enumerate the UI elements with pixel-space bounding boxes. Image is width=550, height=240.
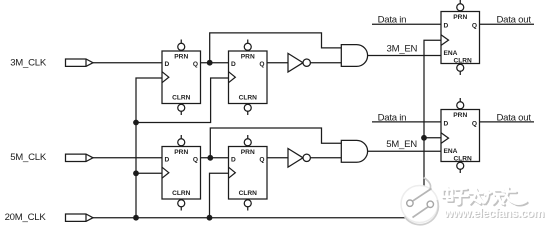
svg-text:3M_EN: 3M_EN bbox=[387, 44, 418, 55]
svg-text:D: D bbox=[165, 156, 170, 163]
junction bus tap 4 bbox=[207, 215, 213, 221]
wire 3M_EN net bbox=[368, 55, 441, 57]
svg-text:PRN: PRN bbox=[453, 112, 467, 119]
AND gate A1 bbox=[341, 45, 367, 67]
svg-text:Q: Q bbox=[472, 121, 477, 128]
input pin connector 20M_CLK pin bbox=[66, 214, 94, 221]
inverter N2 bbox=[288, 149, 310, 168]
svg-text:Q: Q bbox=[259, 156, 264, 163]
svg-text:www.elecfans.com: www.elecfans.com bbox=[443, 206, 544, 220]
wire clock branch to U3.CLK bbox=[136, 172, 162, 174]
svg-text:D: D bbox=[165, 61, 170, 68]
wire U1.Q to U2.D bbox=[201, 62, 229, 64]
D flip-flop U5 bbox=[441, 0, 480, 75]
input pin connector 3M_CLK pin bbox=[66, 59, 94, 66]
inverter N1 bbox=[288, 53, 310, 72]
wire U6.Q to Data out bbox=[480, 121, 535, 123]
svg-text:CLRN: CLRN bbox=[454, 155, 473, 162]
junction bus tap 1 bbox=[133, 215, 139, 221]
svg-text:D: D bbox=[444, 121, 449, 128]
svg-text:5M_CLK: 5M_CLK bbox=[10, 152, 47, 163]
D flip-flop U2 bbox=[229, 40, 268, 116]
svg-text:Q: Q bbox=[193, 61, 198, 68]
svg-text:PRN: PRN bbox=[241, 53, 255, 60]
AND gate A2 bbox=[341, 140, 367, 162]
junction node Q1 bbox=[207, 60, 213, 66]
svg-text:CLRN: CLRN bbox=[239, 190, 258, 197]
D flip-flop U1 bbox=[162, 40, 201, 116]
wire 5M_EN net bbox=[368, 150, 441, 152]
junction bus tap 5 bbox=[421, 135, 427, 141]
svg-text:CLRN: CLRN bbox=[172, 95, 191, 102]
svg-text:20M_CLK: 20M_CLK bbox=[5, 212, 47, 223]
svg-text:Q: Q bbox=[193, 156, 198, 163]
wire inverter N1 to AND1 bottom input bbox=[310, 62, 341, 64]
junction bus tap 3 bbox=[133, 170, 139, 176]
wire 20M_CLK horizontal bus bbox=[93, 217, 424, 219]
wire 3M_CLK to U1.D bbox=[93, 62, 162, 64]
svg-text:PRN: PRN bbox=[453, 14, 467, 21]
junction bus tap 2 bbox=[133, 120, 139, 126]
svg-text:CLRN: CLRN bbox=[239, 95, 258, 102]
D flip-flop U6 bbox=[441, 98, 480, 173]
junction node Q3 bbox=[207, 155, 213, 161]
wire clock branch to U6.CLK bbox=[424, 137, 441, 139]
svg-text:PRN: PRN bbox=[174, 53, 188, 60]
watermark url www.elecfans.com bbox=[443, 206, 545, 221]
wire left clock riser to U1.CLK bbox=[136, 78, 162, 218]
wire clock riser to U4.CLK bbox=[210, 173, 229, 217]
watermark text dianzifashaoyou bbox=[443, 187, 528, 205]
svg-text:D: D bbox=[231, 156, 236, 163]
svg-text:Data out: Data out bbox=[497, 15, 532, 26]
wire U4.Q to inverter bbox=[267, 157, 288, 159]
wire U2.Q to inverter bbox=[267, 62, 288, 64]
wire 5M_CLK to U3.D bbox=[93, 157, 162, 159]
svg-text:5M_EN: 5M_EN bbox=[386, 139, 417, 150]
svg-text:Data out: Data out bbox=[497, 112, 532, 123]
svg-text:ENA: ENA bbox=[444, 50, 458, 57]
svg-text:PRN: PRN bbox=[241, 149, 255, 156]
svg-text:Q: Q bbox=[472, 23, 477, 30]
D flip-flop U3 bbox=[162, 135, 201, 211]
wire U5.Q to Data out bbox=[480, 23, 535, 25]
wire Data in to U6.D bbox=[372, 121, 441, 123]
svg-text:D: D bbox=[231, 61, 236, 68]
wire Data in to U5.D bbox=[372, 23, 441, 25]
wire U3.Q to U4.D bbox=[201, 157, 229, 159]
wire Q3 to AND2 top input bbox=[210, 128, 341, 158]
D flip-flop U4 bbox=[229, 135, 268, 211]
input pin connector 5M_CLK pin bbox=[66, 154, 94, 161]
wire clock branch to U2.CLK bbox=[136, 78, 229, 123]
svg-text:PRN: PRN bbox=[174, 149, 188, 156]
svg-text:3M_CLK: 3M_CLK bbox=[10, 58, 47, 69]
svg-text:D: D bbox=[444, 23, 449, 30]
watermark logo elecfans bbox=[401, 178, 438, 225]
wire inverter N2 to AND2 bottom input bbox=[310, 157, 341, 159]
svg-text:Q: Q bbox=[259, 61, 264, 68]
svg-text:CLRN: CLRN bbox=[454, 57, 473, 64]
wire Q1 to AND1 top input bbox=[210, 33, 342, 63]
svg-text:CLRN: CLRN bbox=[172, 190, 191, 197]
svg-text:ENA: ENA bbox=[444, 148, 458, 155]
wire right clock riser to U5.CLK bbox=[424, 40, 441, 218]
